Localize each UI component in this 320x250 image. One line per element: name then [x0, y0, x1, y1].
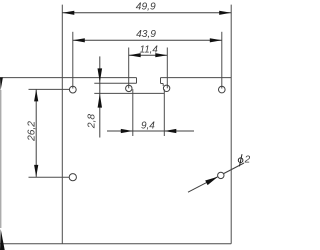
svg-text:49,9: 49,9: [136, 2, 156, 13]
svg-text:43,9: 43,9: [136, 29, 156, 40]
svg-text:2,8: 2,8: [87, 114, 98, 129]
svg-text:9,4: 9,4: [141, 120, 155, 131]
svg-text:26,2: 26,2: [26, 121, 37, 142]
svg-text:2: 2: [244, 154, 250, 165]
svg-text:11,4: 11,4: [140, 44, 159, 55]
